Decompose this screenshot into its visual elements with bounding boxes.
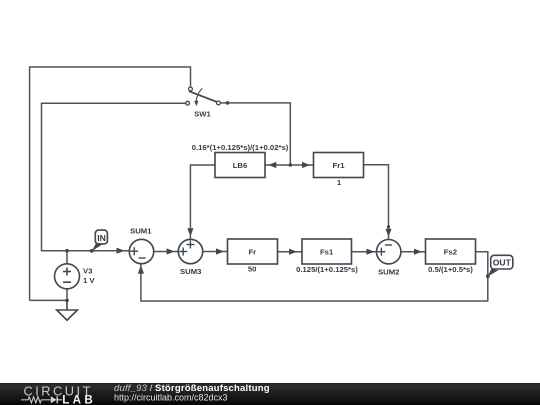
svg-text:Fr1: Fr1 [333, 161, 346, 170]
svg-text:SW1: SW1 [194, 110, 211, 119]
arrow Fr to Fs1 [289, 249, 297, 255]
svg-text:V3: V3 [83, 267, 92, 276]
svg-text:1 V: 1 V [83, 276, 95, 285]
block Fs2 [426, 239, 476, 264]
block LB6 [215, 153, 265, 178]
arrow SUM2 to Fs2 [414, 249, 422, 255]
svg-text:1: 1 [337, 178, 342, 187]
svg-text:LAB: LAB [62, 393, 96, 405]
footer bar [0, 383, 540, 405]
junction LB6/Fr1 input [289, 163, 293, 167]
junction V3 bottom/ground [65, 299, 69, 303]
wire SUM3 to Fr [203, 251, 228, 253]
footer title text [114, 383, 270, 403]
arrow down into SUM2 [385, 229, 391, 237]
wire V3 top stub [66, 251, 68, 264]
summer SUM1 [129, 239, 153, 263]
svg-text:Fs1: Fs1 [320, 248, 334, 257]
arrow into SUM1 [117, 248, 125, 254]
svg-text:SUM3: SUM3 [180, 267, 201, 276]
svg-text:http://circuitlab.com/c82dcx3: http://circuitlab.com/c82dcx3 [114, 393, 228, 403]
wire V3 bottom stub to ground node [66, 289, 68, 301]
wire Fs1 to SUM2 [352, 251, 377, 253]
wire Fr1 output to SUM2 top [364, 165, 389, 239]
junction right of SW1 [226, 101, 230, 105]
svg-text:Fr: Fr [248, 248, 256, 257]
node IN flag [90, 230, 108, 253]
wire SUM2 to Fs2 [401, 251, 426, 253]
svg-text:IN: IN [97, 233, 106, 243]
svg-text:Fs2: Fs2 [444, 248, 457, 257]
wire junction to LB6 input [265, 164, 290, 166]
wire outer loop (V3 ground to SW1 top) [30, 67, 191, 300]
voltage source V3 [55, 264, 80, 289]
block Fr1 [314, 153, 364, 178]
arrow up into SUM1 [138, 265, 144, 273]
wire Fr to Fs1 [278, 251, 303, 253]
svg-text:SUM2: SUM2 [378, 267, 399, 276]
arrow left into LB6 [268, 162, 276, 168]
svg-text:SUM1: SUM1 [130, 226, 152, 235]
arrow Fs1 to SUM2 [367, 249, 375, 255]
arrow right into Fr1 [302, 162, 310, 168]
junction above SUM2 arrow [387, 225, 390, 228]
wire LB6 output to SUM3 top [190, 165, 215, 239]
ground [57, 300, 78, 320]
wire SUM1 to SUM3 [154, 251, 179, 253]
wire SW1 left terminal to IN node [42, 103, 186, 251]
svg-text:0.5/(1+0.5*s): 0.5/(1+0.5*s) [428, 265, 473, 274]
junction V3 top [65, 249, 69, 253]
svg-text:LB6: LB6 [233, 161, 248, 170]
wire SW1 right to LB6/Fr1 junction [221, 103, 291, 165]
wire junction to Fr1 input [290, 164, 313, 166]
switch SW1 [186, 87, 221, 106]
arrow down into SUM3 [187, 228, 193, 236]
svg-text:0.16*(1+0.125*s)/(1+0.02*s): 0.16*(1+0.125*s)/(1+0.02*s) [192, 143, 289, 152]
svg-text:50: 50 [248, 265, 257, 274]
block Fs1 [302, 239, 352, 264]
node OUT flag [486, 255, 513, 278]
wire Fs2 output to feedback loop and SUM1 bottom [141, 252, 488, 301]
arrow SUM3 to Fr [216, 248, 224, 254]
arrow SUM1 to SUM3 [167, 248, 175, 254]
svg-text:0.125/(1+0.125*s): 0.125/(1+0.125*s) [296, 265, 358, 274]
summer SUM2 [377, 240, 401, 264]
summer SUM3 [178, 239, 202, 263]
svg-text:OUT: OUT [493, 257, 512, 267]
block Fr [228, 239, 278, 264]
CircuitLab logo [21, 383, 96, 405]
wire ground node to outer loop [30, 299, 67, 301]
